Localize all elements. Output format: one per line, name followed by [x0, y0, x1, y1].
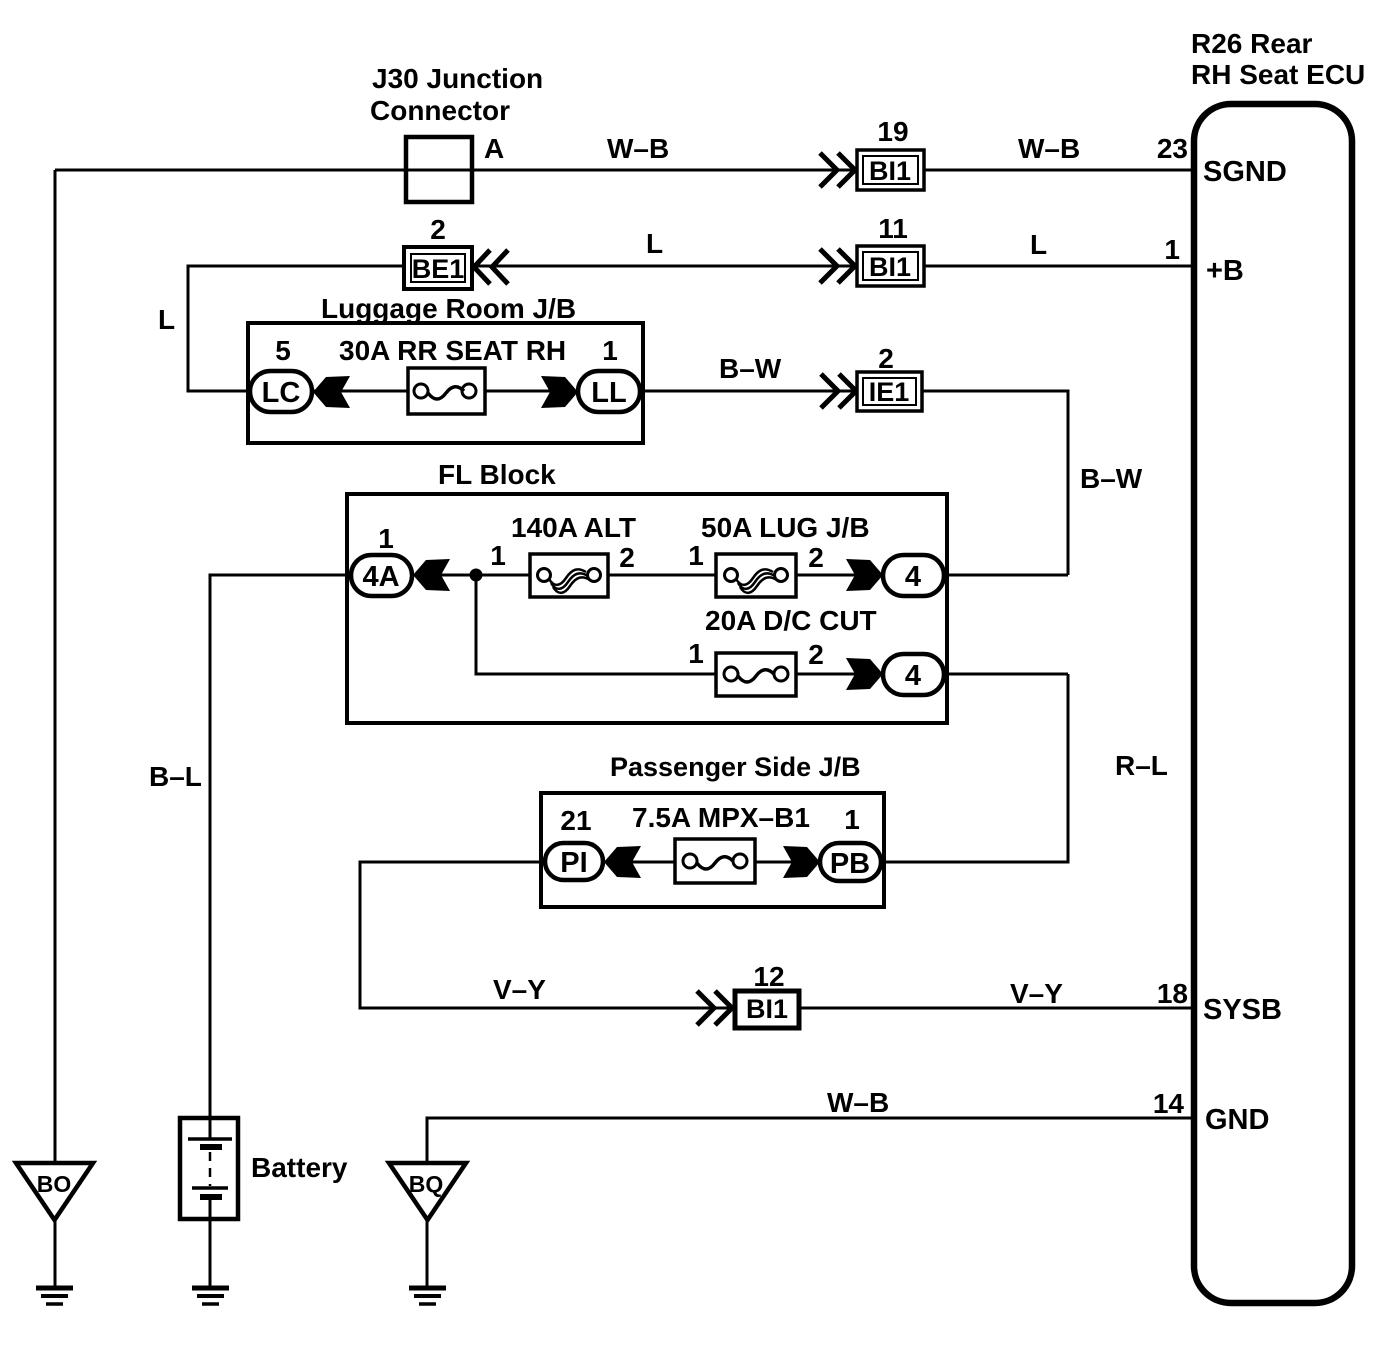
- connector BI1 pin 12: [735, 961, 799, 1028]
- svg-text:20A D/C CUT: 20A D/C CUT: [705, 605, 877, 636]
- label 2 above BE1: [430, 214, 446, 245]
- label B-L: [149, 761, 202, 792]
- svg-text:FL Block: FL Block: [438, 459, 556, 490]
- svg-text:18: 18: [1157, 978, 1188, 1009]
- svg-text:V–Y: V–Y: [493, 974, 546, 1005]
- svg-text:30A RR SEAT RH: 30A RR SEAT RH: [339, 335, 566, 366]
- wire B-W from IE1 down to FL block output 4: [921, 391, 1068, 575]
- terminal 4 (row 1): [883, 555, 944, 596]
- svg-text:1: 1: [1164, 234, 1180, 265]
- Luggage Room J/B box: [248, 323, 643, 443]
- wire inside Luggage Room J/B (LC to LL): [312, 390, 580, 393]
- terminal PI pin 21: [545, 843, 603, 880]
- chevrons into BI1 11: [820, 249, 855, 283]
- svg-text:PI: PI: [560, 847, 587, 879]
- arrow into 4 (row 2): [846, 658, 883, 690]
- wire inside Passenger Side J/B (PI to PB): [601, 861, 822, 864]
- label 21 above PI: [560, 805, 591, 836]
- svg-text:1: 1: [688, 540, 704, 571]
- label FL Block: [438, 459, 556, 490]
- wire BO ground stem: [54, 1220, 57, 1287]
- wire junction branch down to 20A D/C CUT fuse: [476, 575, 883, 674]
- svg-text:BO: BO: [37, 1171, 72, 1197]
- wire L from ECU pin 1 +B to BE1: [472, 265, 1194, 268]
- terminal PB pin 1: [820, 843, 881, 881]
- fuse 20A D/C CUT: [716, 653, 796, 696]
- svg-text:W–B: W–B: [607, 133, 669, 164]
- label Luggage Room J/B: [321, 293, 576, 324]
- svg-text:GND: GND: [1205, 1104, 1269, 1136]
- label 1 above PB: [844, 804, 860, 835]
- wire V-Y from PI down to BI1: [360, 862, 734, 1008]
- svg-text:1: 1: [378, 523, 394, 554]
- label fuse 20A D/C CUT: [705, 605, 877, 636]
- svg-text:L: L: [646, 228, 663, 259]
- svg-text:SYSB: SYSB: [1203, 994, 1282, 1026]
- svg-text:2: 2: [430, 214, 446, 245]
- svg-text:Connector: Connector: [370, 95, 510, 126]
- ground symbol BO: [36, 1288, 73, 1304]
- label 1 above LL: [602, 335, 618, 366]
- svg-text:7.5A MPX–B1: 7.5A MPX–B1: [632, 802, 810, 833]
- pin 1 +B: [1164, 234, 1243, 287]
- label fuse 30A RR SEAT RH: [339, 335, 566, 366]
- label 1 left of 20A fuse: [688, 638, 704, 669]
- svg-text:IE1: IE1: [869, 377, 910, 407]
- svg-text:W–B: W–B: [1018, 133, 1080, 164]
- label fuse 7.5A MPX-B1: [632, 802, 810, 833]
- label L on left branch: [158, 304, 175, 335]
- wire L from BE1 down to Luggage Room J/B LC: [188, 266, 404, 391]
- wire FL block lower 4 to R-L vertical: [942, 673, 1068, 676]
- label R-L: [1115, 750, 1168, 781]
- fuse 7.5A MPX-B1: [675, 839, 755, 883]
- chevrons into IE1: [821, 374, 856, 408]
- connector BI1 pin 19: [857, 116, 924, 190]
- label fuse 50A LUG J/B: [701, 512, 870, 543]
- svg-text:23: 23: [1157, 133, 1188, 164]
- label B-W before IE1: [719, 353, 782, 384]
- svg-text:140A ALT: 140A ALT: [511, 512, 636, 543]
- battery: [180, 1118, 238, 1219]
- wire BQ ground stem: [426, 1220, 429, 1287]
- svg-text:1: 1: [602, 335, 618, 366]
- svg-text:2: 2: [808, 639, 824, 670]
- svg-text:W–B: W–B: [827, 1087, 889, 1118]
- chevrons into BI1 12: [697, 991, 732, 1025]
- label 1 left of 140A fuse: [490, 540, 506, 571]
- pin 23 SGND: [1157, 133, 1287, 188]
- terminal 4A pin 1: [351, 555, 412, 596]
- svg-text:L: L: [1030, 229, 1047, 260]
- wire B-W from LL to IE1: [638, 390, 857, 393]
- svg-text:BI1: BI1: [869, 252, 911, 282]
- svg-text:B–W: B–W: [719, 353, 782, 384]
- label 1 left of 50A fuse: [688, 540, 704, 571]
- connector BE1 pin 2: [404, 247, 472, 289]
- label W-B (left of BI1 19): [607, 133, 669, 164]
- svg-text:4A: 4A: [362, 561, 399, 593]
- label 2 right of 50A fuse: [808, 542, 824, 573]
- svg-text:1: 1: [844, 804, 860, 835]
- svg-text:11: 11: [878, 213, 908, 244]
- svg-text:1: 1: [688, 638, 704, 669]
- pin 14 GND: [1153, 1088, 1270, 1136]
- arrow into PI: [604, 846, 641, 878]
- wire W-B from BQ to ECU pin 14 GND: [427, 1118, 1194, 1163]
- connector BI1 pin 11: [857, 213, 924, 286]
- ground triangle BO: [16, 1163, 93, 1220]
- arrow into LC: [313, 376, 350, 408]
- ground symbol Battery: [192, 1288, 229, 1304]
- label fuse 140A ALT: [511, 512, 636, 543]
- label 1 above 4A: [378, 523, 394, 554]
- wire R-L down to Passenger Side J/B PB: [879, 674, 1068, 862]
- svg-text:PB: PB: [830, 848, 870, 880]
- svg-text:2: 2: [619, 542, 635, 573]
- svg-text:1: 1: [490, 540, 506, 571]
- svg-text:5: 5: [275, 335, 291, 366]
- svg-text:RH Seat ECU: RH Seat ECU: [1191, 59, 1365, 90]
- svg-text:19: 19: [877, 116, 908, 147]
- J30 Junction Connector label: [370, 63, 543, 126]
- chevrons into BE1: [474, 250, 508, 284]
- arrow into PB: [783, 846, 820, 878]
- svg-text:B–W: B–W: [1080, 463, 1143, 494]
- fuse 30A RR SEAT RH: [408, 368, 485, 414]
- terminal LL pin 1: [578, 371, 640, 412]
- wire Battery ground stem: [209, 1197, 212, 1287]
- svg-text:50A LUG J/B: 50A LUG J/B: [701, 512, 870, 543]
- wire FL block 4 to B-W vertical: [942, 574, 1068, 577]
- svg-text:Passenger Side J/B: Passenger Side J/B: [610, 752, 861, 782]
- label L (middle of +B wire): [646, 228, 663, 259]
- wire W-B left vertical to ground BO: [54, 170, 57, 1163]
- wire W-B from J30 to ECU pin 23 SGND: [55, 169, 1194, 172]
- junction node: [470, 569, 483, 582]
- arrow into 4 (row 1): [846, 559, 883, 591]
- terminal 4 (row 2): [883, 654, 944, 695]
- ground symbol BQ: [409, 1288, 446, 1304]
- wire FL block row 1 (4A to 4 through fuses): [411, 574, 883, 577]
- FL Block box: [347, 494, 947, 723]
- svg-text:12: 12: [753, 961, 784, 992]
- svg-text:BI1: BI1: [869, 156, 911, 186]
- svg-text:21: 21: [560, 805, 591, 836]
- svg-text:BI1: BI1: [746, 994, 788, 1024]
- chevrons into BI1 19: [820, 153, 855, 187]
- fusible link 50A LUG J/B: [716, 554, 796, 597]
- J30 junction connector square, pin A: [406, 133, 504, 202]
- svg-text:BQ: BQ: [409, 1171, 444, 1197]
- svg-text:14: 14: [1153, 1088, 1185, 1119]
- svg-text:LC: LC: [262, 377, 301, 409]
- wire B-L from 4A left down to Battery: [210, 575, 353, 1139]
- label W-B (GND wire): [827, 1087, 889, 1118]
- label B-W on vertical wire: [1080, 463, 1143, 494]
- svg-text:Luggage Room J/B: Luggage Room J/B: [321, 293, 576, 324]
- svg-text:+B: +B: [1206, 255, 1244, 287]
- ground triangle BQ: [389, 1163, 466, 1220]
- label W-B (right of BI1 19): [1018, 133, 1080, 164]
- connector IE1 pin 2: [857, 343, 922, 411]
- svg-text:J30 Junction: J30 Junction: [372, 63, 543, 94]
- svg-text:B–L: B–L: [149, 761, 202, 792]
- svg-text:4: 4: [905, 660, 921, 692]
- arrow into 4A: [413, 559, 450, 591]
- terminal LC pin 5: [250, 371, 312, 412]
- svg-text:A: A: [484, 133, 504, 164]
- label V-Y (left): [493, 974, 546, 1005]
- label V-Y (right): [1010, 978, 1063, 1009]
- label L (right of BI1 11): [1030, 229, 1047, 260]
- Passenger Side J/B box: [541, 793, 884, 907]
- label R26 Rear RH Seat ECU: [1191, 28, 1365, 90]
- svg-text:BE1: BE1: [412, 254, 465, 284]
- svg-text:SGND: SGND: [1203, 156, 1287, 188]
- svg-text:2: 2: [878, 343, 894, 374]
- svg-text:Battery: Battery: [251, 1152, 348, 1183]
- svg-text:V–Y: V–Y: [1010, 978, 1063, 1009]
- pin 18 SYSB: [1157, 978, 1282, 1026]
- svg-text:R26 Rear: R26 Rear: [1191, 28, 1313, 59]
- fusible link 140A ALT: [530, 554, 608, 597]
- wire V-Y from BI1 to ECU pin 18 SYSB: [800, 1007, 1194, 1010]
- svg-text:2: 2: [808, 542, 824, 573]
- svg-text:4: 4: [905, 561, 921, 593]
- label 2 right of 140A fuse: [619, 542, 635, 573]
- label Passenger Side J/B: [610, 752, 861, 782]
- label 2 right of 20A fuse: [808, 639, 824, 670]
- svg-text:LL: LL: [591, 377, 626, 409]
- svg-text:L: L: [158, 304, 175, 335]
- label Battery: [251, 1152, 348, 1183]
- svg-text:R–L: R–L: [1115, 750, 1168, 781]
- ECU R26 Rear RH Seat ECU body: [1194, 104, 1352, 1303]
- arrow into LL: [541, 376, 578, 408]
- label 5 above LC: [275, 335, 291, 366]
